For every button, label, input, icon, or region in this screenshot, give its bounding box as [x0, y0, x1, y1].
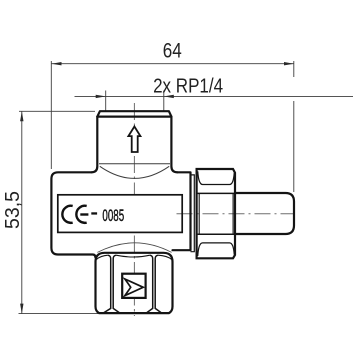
main outlines: [51, 111, 294, 313]
top port: [92, 111, 178, 172]
centerline vertical: [133, 103, 135, 316]
dimension 64: [19, 61, 354, 314]
main body fill: [51, 172, 190, 250]
spigot fill: [235, 193, 294, 234]
thread line in top port: [99, 163, 170, 165]
leader 2x RP1/4: [75, 95, 354, 97]
thread arc top port: [100, 166, 169, 178]
bottom hex nut: [96, 253, 173, 313]
CE mark: [62, 206, 88, 223]
valve body white fills: [51, 111, 294, 313]
label box: [58, 195, 182, 233]
arrowhead 53,5 top: [20, 111, 23, 121]
hollow flow arrow in top port: [128, 127, 140, 153]
arrowhead 64 left: [52, 62, 62, 65]
ext top 53,5: [19, 110, 95, 112]
thin thread arc over bottom nut: [97, 243, 171, 253]
dim line 64: [52, 63, 295, 65]
logo square with arrow on bottom nut: [122, 274, 145, 298]
arrowhead RP right: [164, 95, 174, 98]
bottom nut chamfer arcs: [96, 255, 171, 259]
svg-text:2x RP1/4: 2x RP1/4: [153, 76, 223, 98]
right hex fill: [197, 169, 235, 258]
svg-text:64: 64: [163, 40, 182, 63]
label box fill (hides vertical centerline): [58, 195, 182, 233]
ext lines rp: [105, 91, 107, 112]
bottom hex nut fill: [96, 253, 173, 313]
right hex nut: [197, 169, 235, 258]
svg-text:0085: 0085: [102, 206, 124, 225]
washer between body and hex: [191, 175, 195, 252]
centerline horizontal: [177, 213, 295, 215]
hex outline: [197, 169, 235, 258]
washer fill: [191, 175, 195, 252]
dash: [91, 212, 97, 214]
arrowhead 64 right: [284, 62, 294, 65]
bottom nut face lines: [104, 255, 162, 313]
ext line right (spigot end): [293, 61, 295, 77]
top port fill: [97, 111, 171, 172]
thin detail lines: [97, 164, 171, 253]
dim 53,5 line: [21, 111, 23, 313]
svg-text:53,5: 53,5: [2, 191, 24, 229]
arrowhead 53,5 bottom: [20, 304, 23, 314]
ext bottom 53,5: [19, 313, 99, 315]
spigot: [235, 193, 294, 234]
hex face edge upper: [197, 192, 235, 194]
hex face edge lower: [197, 233, 235, 235]
arrowhead RP left: [96, 95, 106, 98]
ext line left (body top-left corner): [50, 61, 52, 169]
body: [51, 172, 95, 257]
